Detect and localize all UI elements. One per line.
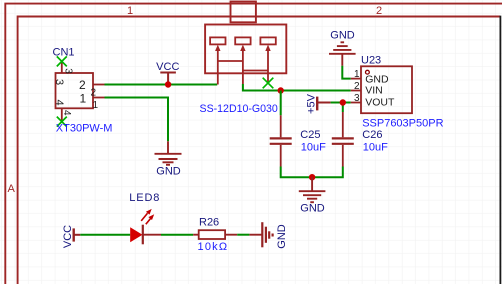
U23 pin 2 — [351, 90, 361, 92]
svg-text:CN1: CN1 — [53, 47, 75, 59]
no-connect X on CN1 pin 4 — [57, 117, 67, 127]
wire CN1 pin2 to switch pin1 (VCC net) — [105, 84, 218, 86]
svg-text:GND: GND — [300, 203, 325, 215]
resistor R26 — [193, 234, 237, 236]
CN1 pin 1 (right lower) — [93, 97, 105, 99]
LED LED8 — [130, 227, 142, 242]
switch pin 3 line + arrow — [267, 50, 269, 83]
switch contact 2 — [235, 37, 250, 44]
right panel edge — [499, 16, 501, 284]
switch body — [205, 25, 286, 74]
svg-text:VIN: VIN — [365, 85, 383, 97]
CN1 pin 3 (top) — [61, 61, 63, 73]
switch position bar 1-2 — [218, 60, 243, 62]
ground symbol (below capacitors) — [299, 177, 326, 202]
regulator U23 body — [361, 66, 412, 113]
capacitor C25 — [280, 91, 282, 116]
svg-text:4: 4 — [53, 100, 65, 106]
switch contact 1 — [210, 37, 225, 44]
wire VCC to LED — [80, 234, 130, 236]
svg-text:R26: R26 — [199, 216, 219, 228]
switch SW actuator — [231, 2, 256, 23]
LED cathode bar — [142, 225, 144, 245]
svg-text:2: 2 — [354, 81, 360, 92]
VCC power flag (top) — [160, 73, 176, 85]
svg-text:1: 1 — [127, 5, 133, 17]
svg-text:+5V: +5V — [306, 93, 318, 114]
svg-text:VCC: VCC — [156, 61, 179, 73]
svg-text:C25: C25 — [300, 129, 320, 141]
svg-text:U23: U23 — [361, 55, 381, 67]
svg-text:SS-12D10-G030: SS-12D10-G030 — [200, 103, 278, 115]
U23 pin 1 — [351, 78, 361, 80]
U23 pin1 dot — [366, 70, 370, 74]
svg-text:VCC: VCC — [62, 225, 74, 248]
wire switch pin2 to U23 VIN — [243, 84, 351, 91]
svg-text:LED8: LED8 — [129, 192, 160, 204]
svg-text:3: 3 — [53, 79, 65, 85]
svg-text:VOUT: VOUT — [365, 97, 395, 109]
svg-text:XT30PW-M: XT30PW-M — [56, 122, 113, 134]
svg-text:10uF: 10uF — [363, 141, 388, 153]
no-connect X on CN1 pin 3 — [57, 56, 67, 66]
svg-text:C26: C26 — [362, 129, 382, 141]
ground symbol (above U23, flipped) — [329, 42, 356, 66]
junction at C26 — [340, 99, 346, 105]
junction at VCC — [165, 81, 171, 87]
wire CN1 pin1 to GND — [105, 98, 169, 142]
LED arrow 2 — [146, 217, 152, 225]
LED arrow 1 — [141, 213, 147, 221]
svg-text:1: 1 — [80, 91, 87, 105]
+5V power flag — [316, 97, 318, 111]
svg-text:10kΩ: 10kΩ — [198, 241, 229, 253]
junction at GND — [309, 174, 315, 180]
switch pin 2 line + arrow — [242, 50, 244, 84]
U23 pin 3 — [351, 102, 361, 104]
wire C25 to C26 bottom (GND net) — [281, 167, 343, 178]
switch pin 1 line + arrow — [217, 50, 219, 85]
connector CN1 body — [56, 73, 94, 108]
capacitor C26 — [332, 112, 354, 167]
svg-text:GND: GND — [156, 165, 181, 177]
svg-text:GND: GND — [276, 224, 288, 249]
wire GND to U23 pin1 — [342, 66, 351, 79]
switch contact 3 — [260, 37, 275, 44]
svg-text:1: 1 — [354, 69, 360, 80]
no-connect X on switch pin 3 — [263, 78, 274, 89]
LED right lead — [143, 234, 161, 236]
CN1 pin 2 (right upper) — [93, 84, 105, 86]
svg-text:1: 1 — [93, 100, 99, 111]
CN1 pin 4 (bottom) — [61, 108, 63, 121]
svg-text:SSP7603P50PR: SSP7603P50PR — [362, 117, 443, 129]
svg-text:GND: GND — [330, 30, 355, 42]
junction at C25 — [278, 87, 284, 93]
svg-text:3: 3 — [354, 93, 360, 104]
VCC power flag (LED row) — [72, 228, 74, 241]
svg-text:2: 2 — [79, 78, 86, 92]
svg-text:4: 4 — [61, 110, 72, 116]
svg-text:2: 2 — [376, 5, 382, 17]
wire R26 to GND flag — [237, 234, 249, 236]
ground symbol (below CN1) — [155, 141, 182, 165]
svg-text:10uF: 10uF — [301, 141, 326, 153]
wire LED to R26 — [161, 234, 193, 236]
switch position bar 2-3 — [243, 70, 268, 72]
ground flag (right of R26, rotated) — [262, 222, 272, 247]
wire +5V to U23 VOUT — [331, 102, 351, 104]
svg-text:3: 3 — [63, 68, 74, 74]
svg-text:A: A — [8, 183, 16, 195]
